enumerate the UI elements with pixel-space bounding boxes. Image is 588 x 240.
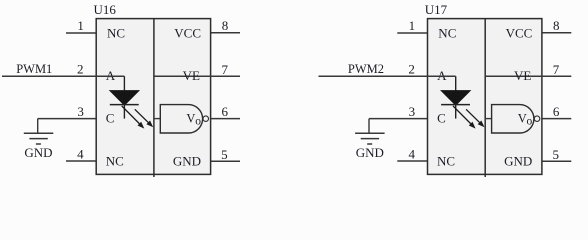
svg-text:U17: U17 <box>425 2 448 17</box>
svg-text:U16: U16 <box>94 2 117 17</box>
svg-text:PWM1: PWM1 <box>16 62 52 76</box>
svg-text:PWM2: PWM2 <box>348 62 384 76</box>
